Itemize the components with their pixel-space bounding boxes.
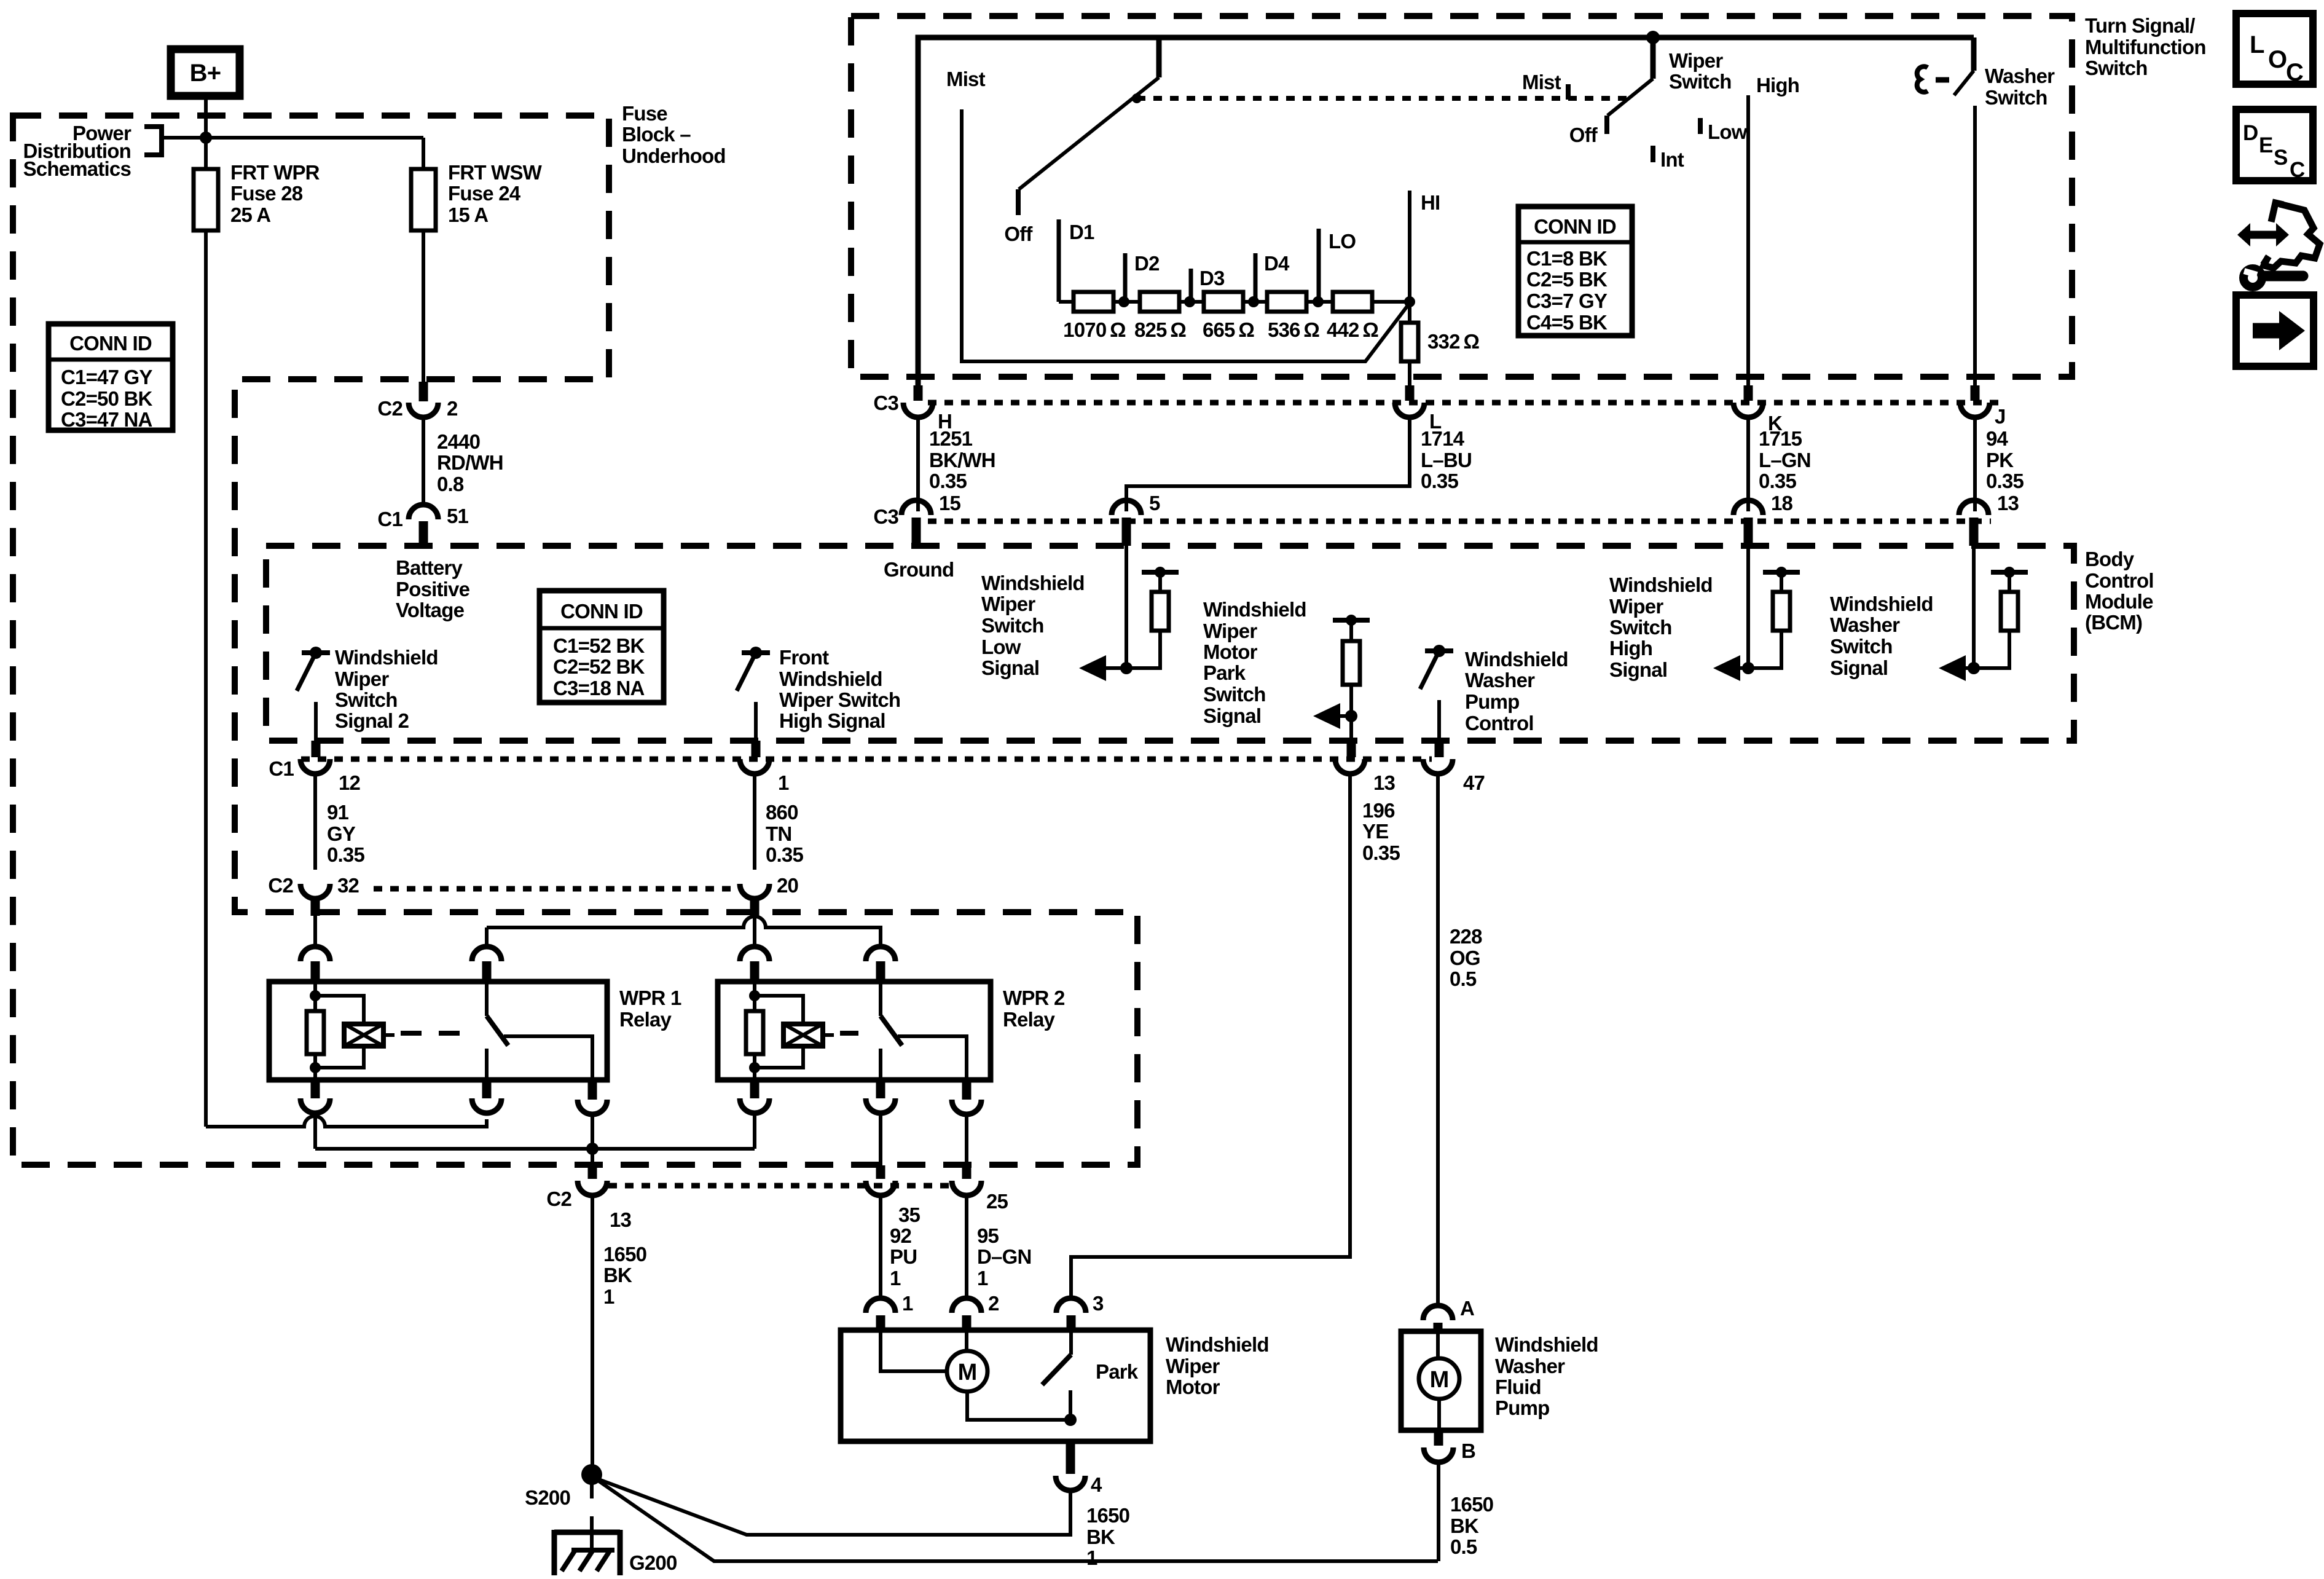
node: HI junction [1404,296,1415,307]
svg-text:RD/WH: RD/WH [437,451,503,474]
socket arcs under WPR1 [300,1098,330,1113]
svg-text:25: 25 [986,1190,1008,1213]
wire: S200 stub down [590,1484,594,1498]
svg-text:Fuse 24: Fuse 24 [448,182,521,205]
wire 1650 BK 1 (to S200) [591,1195,594,1465]
tick and label: D2 [1123,253,1128,302]
resistor 442 ohm [1333,292,1372,312]
connector pin 5 (BCM) [1112,500,1141,515]
svg-text:Mist: Mist [946,68,986,90]
svg-text:YE: YE [1362,820,1388,843]
svg-text:1: 1 [1086,1546,1097,1569]
inline socket connector WPR1 coil [300,947,330,961]
connector pin B (washer pump) [1434,1430,1443,1446]
svg-text:Park: Park [1203,661,1246,684]
svg-text:Switch: Switch [981,614,1044,637]
svg-text:C1=52 BK: C1=52 BK [553,634,645,657]
svg-text:1: 1 [778,771,789,794]
svg-text:51: 51 [447,505,469,527]
svg-text:Park: Park [1096,1360,1139,1383]
node: LO tap [1313,296,1324,307]
wire 1714 L-BU 0.35 (L to BCM 5) [1126,417,1410,511]
svg-text:Off: Off [1004,222,1033,245]
wire: pin 32 into relay socket [313,915,317,948]
switch lever: wiper switch left (resistor chain side) [1156,39,1162,77]
svg-text:D3: D3 [1199,267,1225,289]
svg-text:665 Ω: 665 Ω [1203,318,1254,341]
svg-text:Switch: Switch [1985,86,2047,109]
tick and label: Int position [1651,146,1655,162]
connector pin 13 (BCM washer signal) [1959,500,1988,515]
svg-text:0.35: 0.35 [1759,470,1796,492]
svg-text:13: 13 [1373,771,1396,794]
washer switch spring symbol [1917,66,1928,92]
svg-text:C3=18 NA: C3=18 NA [553,677,645,699]
svg-text:1: 1 [902,1292,913,1315]
svg-text:Washer: Washer [1495,1355,1565,1377]
svg-text:25 A: 25 A [230,203,270,226]
connector C1 pin 51 (BCM battery feed) [409,505,438,519]
svg-text:Schematics: Schematics [23,157,131,180]
svg-text:OG: OG [1450,947,1480,969]
connector pin 18 (BCM) [1733,500,1763,515]
svg-text:BK: BK [1086,1526,1115,1548]
svg-text:Off: Off [1569,124,1598,146]
svg-text:C2: C2 [377,397,402,420]
svg-text:228: 228 [1450,925,1482,948]
connector face row: C2-32 and 20 [374,886,737,892]
svg-text:1070 Ω: 1070 Ω [1063,318,1126,341]
svg-text:C2: C2 [546,1187,571,1210]
svg-text:PU: PU [890,1245,917,1268]
svg-text:0.35: 0.35 [929,470,967,492]
svg-text:WPR 2: WPR 2 [1003,986,1065,1009]
wire: WPR2 contact out to connector 35 [879,1114,882,1179]
svg-text:(BCM): (BCM) [2085,611,2142,634]
svg-text:Wiper: Wiper [981,593,1035,615]
svg-text:Pump: Pump [1465,690,1519,713]
svg-text:Voltage: Voltage [396,599,465,621]
svg-text:M: M [958,1360,977,1385]
svg-text:Signal: Signal [981,656,1039,679]
washer fluid pump box [1401,1331,1481,1430]
connector pin 25 [962,1165,972,1179]
svg-text:BK/WH: BK/WH [929,449,995,471]
svg-text:Module: Module [2085,590,2153,613]
svg-text:FRT WPR: FRT WPR [230,161,320,184]
socket arcs under WPR2 [740,1098,769,1113]
component box: Turn Signal / Multifunction Switch (dashed outline) [851,16,2072,377]
relay WPR1 pins [311,1080,320,1098]
svg-text:S: S [2274,146,2288,170]
svg-text:Switch: Switch [335,688,398,711]
icon: vehicle with wrench [2249,231,2277,239]
svg-text:1715: 1715 [1759,427,1802,450]
switch lever: wiper switch main [1646,31,1660,44]
connector pin 2 (wiper motor) [952,1298,981,1313]
tick: Mist position (right) [1566,84,1571,100]
svg-text:15: 15 [939,492,961,514]
wiper motor park switch [1069,1330,1073,1355]
wire 1650 BK 1 (motor ground) [597,1479,1070,1535]
svg-text:32: 32 [337,874,359,897]
svg-text:Control: Control [1465,712,1534,734]
wiper motor armature M [881,1330,947,1371]
svg-text:Block –: Block – [622,123,691,146]
tick and label: D1 [1057,219,1061,302]
connector C2 pin 13 (fuse block ground out) [588,1165,597,1179]
wire 1650 BK 0.5 (pump to ground run) [1437,1462,1440,1561]
svg-text:0.35: 0.35 [327,843,364,866]
svg-text:C1=47 GY: C1=47 GY [61,366,152,388]
svg-text:Low: Low [981,636,1021,658]
wire: 332 ohm to connector L [1408,361,1411,386]
svg-text:1650: 1650 [1086,1504,1129,1527]
icon: LOC [2236,14,2313,84]
svg-text:C4=5 BK: C4=5 BK [1526,311,1608,334]
svg-text:Fuse 28: Fuse 28 [230,182,303,205]
svg-text:A: A [1460,1297,1474,1320]
svg-text:442 Ω: 442 Ω [1327,318,1378,341]
relay WPR1 box [269,982,607,1080]
fuse F28 FRT WPR 25A [194,169,218,230]
svg-text:B+: B+ [190,60,221,87]
node: power distribution tap junction [200,132,212,144]
svg-text:C1=8 BK: C1=8 BK [1526,247,1608,270]
svg-text:C3=7 GY: C3=7 GY [1526,289,1608,312]
svg-text:1650: 1650 [603,1243,646,1266]
wire 196 YE 0.35 [1071,774,1350,1298]
svg-text:C2=5 BK: C2=5 BK [1526,268,1608,291]
fuse F24 FRT WSW 15A [411,169,436,230]
svg-text:3: 3 [1093,1292,1104,1315]
svg-text:Windshield: Windshield [1830,593,1933,615]
svg-text:Fluid: Fluid [1495,1376,1541,1398]
svg-text:Turn Signal/: Turn Signal/ [2085,14,2195,37]
svg-text:C2: C2 [268,874,293,897]
svg-text:Signal: Signal [1830,656,1888,679]
svg-text:332 Ω: 332 Ω [1427,330,1479,353]
relay WPR2 linkage dashes [840,1031,873,1036]
connector pin 35 [876,1165,885,1179]
svg-text:C1: C1 [269,757,294,780]
svg-text:Body: Body [2085,548,2135,570]
svg-text:1: 1 [977,1267,988,1290]
svg-text:WPR 1: WPR 1 [619,986,681,1009]
wire: S200 to washer pump ground run [599,1481,1438,1561]
svg-text:1: 1 [603,1285,614,1308]
connector pin L [1405,385,1415,401]
svg-text:C2=52 BK: C2=52 BK [553,655,645,678]
connector pin 20 [740,884,769,899]
inline socket connector WPR1 contact [472,947,501,961]
svg-text:Washer: Washer [1830,613,1900,636]
svg-text:Wiper: Wiper [335,667,389,690]
svg-text:0.35: 0.35 [1362,841,1400,864]
svg-text:35: 35 [898,1203,921,1226]
svg-text:47: 47 [1463,771,1485,794]
svg-text:0.35: 0.35 [1421,470,1458,492]
connector pin J [1971,385,1980,401]
wire: feed to FRT WSW fuse [162,138,423,169]
svg-text:1251: 1251 [929,427,973,450]
wire: relay switch feed rail with hop over pin 20 wire [487,916,881,948]
resistor chain wire [1059,300,1074,304]
svg-text:L–GN: L–GN [1759,449,1811,471]
node: D4 tap [1248,296,1259,307]
svg-text:Relay: Relay [619,1008,672,1031]
washer pump motor M [1436,1331,1440,1358]
relay WPR2 box [718,982,991,1080]
svg-text:Windshield: Windshield [1203,598,1306,621]
splice S200 [581,1464,602,1485]
svg-text:GY: GY [327,822,356,845]
svg-text:0.35: 0.35 [1986,470,2024,492]
svg-text:Wiper Switch: Wiper Switch [779,688,900,711]
node: D2 tap [1118,296,1129,307]
svg-text:High: High [1609,637,1652,660]
resistor 825 ohm [1140,292,1179,312]
svg-text:BK: BK [1450,1514,1479,1537]
svg-text:Switch: Switch [1609,616,1672,639]
relay WPR1 suppression element [315,996,364,1068]
svg-text:20: 20 [777,874,798,897]
mechanical linkage dotted line [1137,96,1627,101]
relay WPR2 contact [879,982,882,1016]
battery positive symbol B+ [171,49,240,96]
connector pin K [1744,385,1753,401]
svg-text:0.5: 0.5 [1450,967,1477,990]
wire: relay coil return rail [315,1114,755,1149]
svg-text:D2: D2 [1134,252,1160,275]
svg-text:C2=50 BK: C2=50 BK [61,387,153,410]
wire 91 GY 0.35 [313,774,317,870]
connector pin 47 (BCM washer pump) [1435,741,1444,757]
component box: Body Control Module BCM (dashed outline) [266,546,2074,741]
svg-text:2: 2 [988,1292,999,1315]
svg-text:BK: BK [603,1264,632,1286]
svg-text:Fuse: Fuse [622,102,667,125]
connector face row: fuse block bottom [608,1183,952,1189]
connector C3 pin H [914,385,923,401]
svg-text:Motor: Motor [1166,1376,1220,1398]
svg-text:1650: 1650 [1450,1493,1493,1516]
connector face row: BCM C3 top [928,519,1991,524]
switch lever: washer switch [1971,37,1977,71]
BCM switch: windshield washer pump control [1425,648,1453,653]
svg-text:O: O [2268,46,2287,73]
wire: B+ feed to WPR1 contact with hop [206,1116,487,1127]
svg-text:LO: LO [1329,230,1356,253]
wire: WPR1 output to ground node [591,1116,594,1179]
svg-text:0.5: 0.5 [1450,1535,1477,1558]
svg-text:C: C [2286,59,2303,86]
svg-text:Windshield: Windshield [335,646,438,669]
svg-text:Wiper: Wiper [1609,595,1663,618]
svg-text:PK: PK [1986,449,2014,471]
svg-text:Wiper: Wiper [1203,620,1257,642]
svg-text:18: 18 [1771,492,1793,514]
BCM input: washer switch signal (pin 13 row pull-up and arrow) [1972,546,1976,668]
svg-text:M: M [1430,1367,1449,1393]
tick and label: D3 [1189,269,1193,302]
svg-text:Low: Low [1708,120,1748,143]
wire 228 OG 0.5 [1436,774,1440,1305]
svg-text:Wiper: Wiper [1669,49,1723,72]
svg-text:High: High [1756,74,1799,96]
wire: B+ feed down to relay area [204,96,208,1127]
svg-text:Windshield: Windshield [779,667,882,690]
svg-text:D–GN: D–GN [977,1245,1032,1268]
svg-text:Windshield: Windshield [1465,648,1568,671]
relay WPR1 contact [485,982,489,1016]
svg-text:Underhood: Underhood [622,144,726,167]
relay WPR2 suppression element [755,996,803,1068]
connector face row: turn signal switch C3/C1 [928,400,2000,406]
resistor 536 ohm [1267,292,1306,312]
svg-text:Front: Front [779,646,829,669]
inline socket connector WPR2 contact [866,947,895,961]
svg-text:CONN ID: CONN ID [1534,215,1616,238]
svg-text:Signal: Signal [1203,704,1261,727]
table: CONN ID underhood fuse block [49,324,173,430]
svg-text:B: B [1461,1439,1475,1462]
svg-text:Windshield: Windshield [1495,1333,1598,1356]
svg-text:Switch: Switch [2085,57,2148,79]
svg-text:2440: 2440 [437,430,480,453]
svg-text:Switch: Switch [1669,70,1732,93]
relay WPR2 pins [750,1080,760,1098]
connector pin 1 (BCM) [752,741,761,757]
wire 1251 BK/WH 0.35 (H to BCM 15) [916,417,920,511]
svg-text:C3: C3 [873,505,898,528]
svg-text:G200: G200 [629,1551,677,1574]
wire: washer switch to connector J [1973,106,1977,386]
tick and label: D4 [1254,253,1258,302]
wire 2440 RD/WH 0.8 [422,417,425,504]
wire 92 PU 1 [879,1195,882,1298]
resistor 1070 ohm [1074,292,1113,312]
svg-text:Control: Control [2085,569,2154,592]
svg-text:J: J [1995,405,2006,428]
svg-text:95: 95 [977,1224,999,1247]
svg-text:Windshield: Windshield [1609,573,1713,596]
svg-text:CONN ID: CONN ID [560,600,643,623]
svg-text:Wiper: Wiper [1166,1355,1220,1377]
svg-text:2: 2 [447,397,458,420]
wire 95 D-GN 1 [965,1195,968,1298]
svg-text:5: 5 [1149,492,1160,514]
svg-text:C3: C3 [873,392,898,414]
svg-text:HI: HI [1421,191,1440,214]
table: CONN ID BCM [540,591,664,703]
wire 1715 L-GN 0.35 (K to BCM 18) [1746,417,1750,511]
svg-text:860: 860 [766,801,798,824]
icon: DESC [2236,109,2313,181]
connector pin 1 (wiper motor) [866,1298,895,1313]
svg-text:1: 1 [890,1267,901,1290]
wire: Mist position contact [962,109,1410,361]
svg-text:E: E [2259,133,2273,157]
tick and label: Low position [1698,118,1703,134]
connector C3 pin 15 (BCM ground) [901,500,931,515]
svg-text:0.35: 0.35 [766,843,803,866]
svg-text:Windshield: Windshield [981,572,1085,594]
inline socket connector WPR2 coil [740,947,769,961]
svg-text:Signal: Signal [1609,658,1667,681]
svg-text:Signal 2: Signal 2 [335,709,409,732]
connector pin 3 (wiper motor) [1056,1298,1086,1313]
svg-text:L: L [2250,31,2264,58]
svg-text:Washer: Washer [1465,669,1535,691]
svg-text:L–BU: L–BU [1421,449,1472,471]
svg-text:C1: C1 [377,508,402,530]
svg-text:Mist: Mist [1522,71,1561,93]
BCM input: wiper switch low signal (pin 5 pull-up and arrow) [1125,546,1128,668]
svg-text:FRT WSW: FRT WSW [448,161,543,184]
svg-text:Relay: Relay [1003,1008,1056,1031]
svg-text:C: C [2290,158,2305,182]
svg-text:Switch: Switch [1830,635,1893,658]
svg-text:Washer: Washer [1985,65,2055,87]
node: relay ground junction [586,1143,599,1155]
resistor 332 ohm [1408,302,1411,323]
svg-text:536 Ω: 536 Ω [1268,318,1319,341]
svg-text:Battery: Battery [396,556,463,579]
connector C2 pin 2 (fuse block) [419,382,428,401]
svg-text:TN: TN [766,822,791,845]
connector pin A (washer pump) [1423,1305,1453,1320]
svg-text:High Signal: High Signal [779,709,885,732]
wiper switch frame (solid) [918,37,1974,393]
svg-text:15 A: 15 A [448,203,488,226]
svg-text:Positive: Positive [396,578,470,600]
svg-text:91: 91 [327,801,349,824]
icon: arrow [2236,295,2314,366]
component box: Fuse Block - Underhood (dashed outline) [13,116,1137,1165]
wire: pin 20 down to relay feed [753,915,756,948]
washer switch dash [1936,77,1949,83]
svg-text:Multifunction: Multifunction [2085,36,2206,58]
connector C1 pin 12 (BCM) [312,741,321,757]
connector face row: BCM bottom C1/C2 [301,757,1432,762]
resistor 665 ohm [1204,292,1243,312]
BCM input: wiper motor park switch signal (pin 13 bottom) [1349,620,1353,641]
wire and label: HI [1408,191,1411,302]
svg-text:D4: D4 [1264,252,1290,275]
BCM input: wiper switch high signal (pin 18 pull-up and arrow) [1746,546,1750,668]
BCM switch: front windshield wiper switch high signal [742,650,770,655]
wire: WPR2 right pin to connector 25 [965,1116,968,1179]
svg-text:Pump: Pump [1495,1396,1549,1419]
svg-text:D: D [2243,121,2258,145]
svg-text:92: 92 [890,1224,912,1247]
node: D3 tap [1184,296,1195,307]
svg-text:Motor: Motor [1203,640,1258,663]
connector pin 13 (BCM park signal) [1347,741,1356,757]
svg-text:94: 94 [1986,427,2009,450]
relay WPR2 coil [753,982,756,1011]
wire: High contact to connector K [1746,95,1750,386]
bracket: Power Distribution Schematics reference [144,127,162,155]
BCM switch: windshield wiper switch signal 2 [302,650,330,655]
wire: fuse 24 output to connector C2-2 [422,230,425,384]
wiper motor ground pin 4 [1066,1441,1075,1474]
svg-text:13: 13 [1997,492,2019,514]
svg-text:13: 13 [610,1208,632,1231]
svg-text:0.8: 0.8 [437,473,464,495]
relay WPR1 linkage dashes [401,1031,476,1036]
